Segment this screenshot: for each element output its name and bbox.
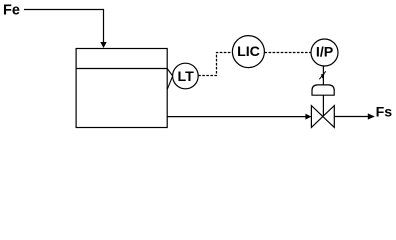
instrument I/P (current to pressure converter) xyxy=(311,39,338,66)
wire pneumatic signal I/P to actuator xyxy=(322,66,324,85)
wire dashed signal LIC to I/P xyxy=(265,52,311,54)
svg-text:LIC: LIC xyxy=(237,44,260,60)
wire arrowhead into valve xyxy=(305,114,311,120)
wire valve stem xyxy=(322,95,324,116)
wire LT tap lower xyxy=(167,76,173,89)
wire outlet pipe from valve xyxy=(334,116,368,118)
node liquid level line xyxy=(76,68,167,70)
instrument LT (level transmitter) xyxy=(173,63,199,89)
wire LT tap upper xyxy=(167,69,173,77)
node pneumatic slash mark xyxy=(319,71,326,79)
svg-text:Fe: Fe xyxy=(3,3,20,19)
wire arrowhead to Fs xyxy=(368,113,375,119)
svg-text:LT: LT xyxy=(177,69,194,85)
instrument LIC (level controller) xyxy=(232,36,264,68)
node arrow tick on stem xyxy=(321,74,325,78)
wire outlet pipe from tank xyxy=(167,116,306,118)
svg-text:I/P: I/P xyxy=(316,45,333,61)
valve V1 body right triangle xyxy=(323,106,335,128)
wire feed line horizontal xyxy=(24,10,104,43)
svg-text:Fs: Fs xyxy=(376,105,393,121)
wire dashed signal LT to LIC xyxy=(198,53,232,76)
valve actuator diaphragm dome xyxy=(312,85,334,95)
wire feed arrowhead into tank xyxy=(100,42,106,48)
valve V1 body left triangle xyxy=(311,106,322,128)
tank T1 xyxy=(76,49,167,128)
